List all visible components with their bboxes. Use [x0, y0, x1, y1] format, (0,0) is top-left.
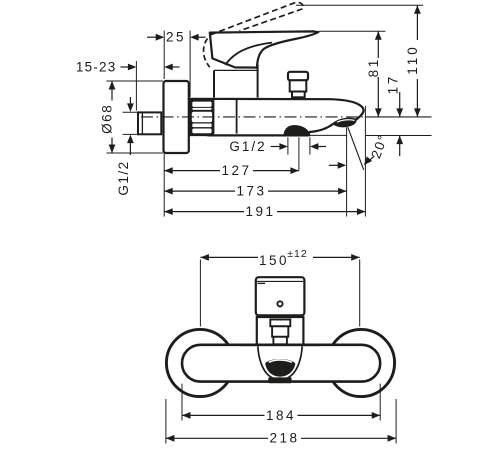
- extension line body front x=190.1: [189, 31, 191, 97]
- svg-text:150: 150: [259, 253, 289, 268]
- spout tip (black leaf): [333, 119, 357, 128]
- svg-text:173: 173: [236, 184, 266, 199]
- right escutcheon circle: [327, 329, 394, 396]
- raised handle (dashed): [211, 2, 304, 34]
- extension line spout outlet x=346.6: [346, 127, 348, 216]
- svg-text:Ø68: Ø68: [99, 104, 114, 134]
- top extension line from raised lever tip: [296, 4, 423, 6]
- dim diameter 68: [111, 81, 113, 153]
- svg-text:20°: 20°: [368, 132, 391, 161]
- body seam line: [236, 99, 238, 134]
- wall escutcheon (side view): [164, 81, 189, 153]
- escutcheon diameter extension lines: [107, 80, 164, 82]
- nipple thread extension lines: [123, 111, 140, 113]
- svg-text:184: 184: [266, 408, 296, 423]
- svg-text:G1/2: G1/2: [116, 160, 131, 195]
- svg-text:25: 25: [166, 30, 186, 45]
- svg-text:218: 218: [269, 431, 299, 446]
- mixer body (side view): [190, 99, 364, 136]
- spout base tab (black): [268, 377, 291, 383]
- wall nipple G1/2: [138, 112, 161, 134]
- handle (front view): [256, 277, 305, 315]
- svg-text:15-23: 15-23: [76, 59, 117, 74]
- centerline right solid extension: [365, 116, 432, 118]
- svg-text:G1/2: G1/2: [229, 139, 266, 154]
- dim 173: [164, 190, 346, 192]
- svg-text:110: 110: [405, 44, 420, 75]
- extension line from handle top: [319, 30, 386, 32]
- handle lever (side view): [210, 31, 318, 67]
- svg-text:17: 17: [386, 74, 401, 94]
- bar top line redraw over spout: [240, 343, 320, 346]
- dim 81: [377, 31, 379, 117]
- svg-text:±12: ±12: [287, 248, 307, 260]
- union nut (black with slots): [190, 99, 215, 135]
- centerline (dash-dot) of mixer body: [141, 116, 365, 118]
- spout U (front view): [258, 346, 302, 380]
- svg-text:127: 127: [221, 163, 251, 178]
- svg-text:191: 191: [245, 204, 275, 219]
- dim 218: [166, 437, 396, 439]
- left escutcheon circle: [166, 329, 233, 396]
- body column (front view): [257, 317, 304, 346]
- dim G1/2 middle (outlet thread): [287, 137, 289, 154]
- diverter knob (side view): [288, 72, 308, 81]
- aerator bump (black): [284, 125, 311, 136]
- 20-degree water jet line: [348, 127, 364, 170]
- svg-text:81: 81: [366, 57, 381, 77]
- dim 127: [164, 170, 299, 172]
- dim 17: [399, 92, 401, 117]
- dim 191: [164, 211, 365, 213]
- dim 184: [182, 414, 380, 416]
- handle indicator dot: [277, 301, 282, 306]
- extension line body tip x=365.4: [364, 106, 366, 217]
- dim G1/2 left (wall connection): [129, 97, 131, 104]
- dim 150 +/-12: [200, 256, 359, 258]
- extension line escutcheon front x=164.2: [163, 31, 165, 79]
- cartridge neck: [215, 69, 257, 98]
- body bar (front view): [182, 345, 380, 382]
- outlet-level extension line y=135: [310, 134, 347, 136]
- spout bowl (black): [265, 359, 295, 377]
- extension line wall face x=136.4: [135, 61, 137, 111]
- dim 110: [416, 5, 418, 117]
- diverter (front view): [270, 320, 290, 327]
- handle crease line: [225, 43, 272, 65]
